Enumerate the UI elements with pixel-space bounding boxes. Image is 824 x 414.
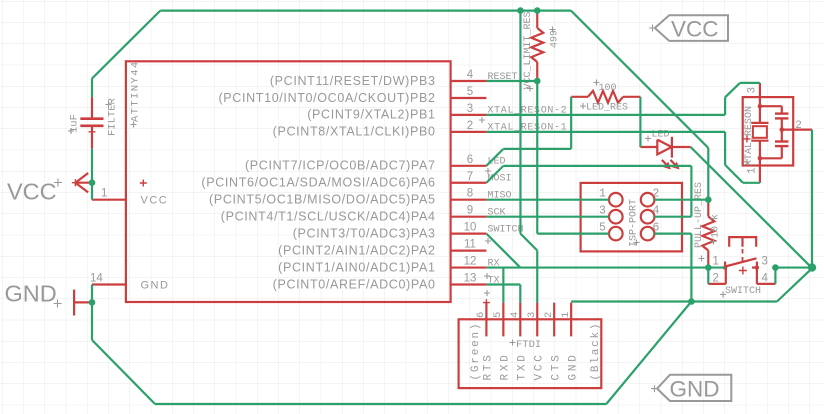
wire RX drop to FTDI RXD (502, 268, 504, 303)
IC U1 ATTINY44 body (126, 61, 451, 302)
svg-text:SWITCH: SWITCH (725, 286, 761, 297)
svg-text:VCC: VCC (671, 16, 719, 41)
svg-text:6: 6 (475, 312, 487, 318)
svg-text:10 k: 10 k (710, 214, 722, 238)
svg-text:1uF: 1uF (69, 114, 81, 133)
svg-text:1: 1 (599, 188, 606, 201)
wire XTAL_RESON-1 vertical (724, 132, 726, 165)
wire switch pin4 box edge (774, 268, 776, 284)
svg-text:2: 2 (796, 119, 802, 131)
svg-text:(PCINT1/AIN0/ADC1)PA1: (PCINT1/AIN0/ADC1)PA1 (278, 260, 435, 274)
switch pin 4 box (756, 268, 758, 284)
wire switch 3 to GND node (775, 266, 812, 268)
svg-text:(Black): (Black) (590, 322, 602, 381)
svg-text:2: 2 (543, 312, 555, 318)
wire switch pin2 box edge (707, 268, 709, 284)
svg-text:TXD: TXD (517, 352, 529, 380)
wire MOSI diagonal from pin 7 (486, 166, 503, 183)
wire XTAL_RESON-1 to pin 1 (743, 182, 760, 184)
svg-text:CTS: CTS (550, 352, 562, 380)
pin 12 lead (451, 266, 487, 268)
wire RX/SWITCH row (486, 266, 725, 268)
pin 9 lead (451, 216, 487, 218)
wire VCC cap-top vertical (91, 79, 93, 98)
svg-text:(PCINT9/XTAL2)PB1: (PCINT9/XTAL2)PB1 (307, 108, 435, 122)
pin 8 lead (451, 199, 487, 201)
svg-text:13: 13 (464, 273, 477, 285)
svg-text:(PCINT5/OC1B/MISO/DO/ADC5)PA5: (PCINT5/OC1B/MISO/DO/ADC5)PA5 (209, 193, 436, 207)
svg-text:(PCINT0/AREF/ADC0)PA0: (PCINT0/AREF/ADC0)PA0 (273, 277, 436, 291)
wire LED cathode diagonal to GND node (691, 147, 812, 268)
LED emission arrows (662, 160, 677, 167)
wire GND row under switch (571, 300, 777, 302)
junction GND symbol (89, 299, 96, 306)
svg-text:(PCINT8/XTAL1/CLKI)PB0: (PCINT8/XTAL1/CLKI)PB0 (273, 125, 436, 139)
svg-text:8: 8 (467, 188, 473, 200)
wire MOSI to ISP pad 4 (654, 216, 691, 218)
supply flag VCC (top right) (655, 15, 728, 41)
svg-text:3: 3 (526, 312, 538, 318)
wire MOSI horizontal (503, 165, 691, 167)
pin 1 VCC lead (92, 199, 126, 201)
FTDI pin 5 lead (502, 303, 504, 337)
wire SCK to ISP pad 3 (486, 216, 609, 218)
svg-text:1: 1 (747, 167, 759, 174)
svg-text:1: 1 (101, 188, 107, 200)
wire resonator pin2 down to GND node (811, 130, 813, 268)
junction VCC rail B (534, 7, 541, 14)
svg-text:(PCINT6/OC1A/SDA/MOSI/ADC6)PA6: (PCINT6/OC1A/SDA/MOSI/ADC6)PA6 (201, 176, 435, 190)
svg-text:RTS: RTS (483, 352, 495, 380)
svg-text:1: 1 (713, 256, 719, 268)
junction VCC rail A (517, 7, 524, 14)
wire TX drop to FTDI TXD (519, 285, 521, 303)
svg-text:VCC: VCC (141, 195, 169, 207)
ground symbol GND (73, 290, 75, 316)
svg-text:100: 100 (599, 83, 617, 94)
pin 3 lead (451, 114, 487, 116)
svg-text:SWITCH: SWITCH (488, 224, 524, 235)
svg-text:XTAL_RESON: XTAL_RESON (744, 106, 755, 166)
switch S1 actuator (729, 237, 756, 247)
svg-text:GND: GND (5, 281, 57, 307)
svg-text:(PCINT10/INT0/OC0A/CKOUT)PB2: (PCINT10/INT0/OC0A/CKOUT)PB2 (218, 91, 435, 105)
wire XTAL_RESON-1 horizontal (486, 131, 725, 133)
ISP pad 2 (641, 193, 655, 207)
wire VCC vertical to FTDI (519, 11, 521, 234)
connector J2 FTDI body (459, 319, 602, 388)
svg-text:VCC_LIMIT_RES: VCC_LIMIT_RES (523, 11, 534, 89)
wire resistor to LED anode (639, 97, 641, 147)
svg-text:2: 2 (713, 273, 719, 285)
switch contact 3 (756, 262, 758, 268)
svg-text:(PCINT11/RESET/DW)PB3: (PCINT11/RESET/DW)PB3 (270, 74, 436, 88)
pin 4 lead (451, 80, 487, 82)
svg-text:3: 3 (467, 103, 473, 115)
wire SWITCH diagonal from pin 10 (486, 234, 520, 268)
supply symbol VCC arrow (75, 182, 92, 184)
resonator pin 1 lead (759, 141, 761, 183)
crystal plates (751, 122, 768, 124)
wire RESET to ISP pad 5 (537, 233, 609, 235)
wire MISO to ISP pad 1 (486, 199, 609, 201)
pin 5 lead (451, 97, 487, 99)
wire LED diagonal from pin 6 (486, 149, 503, 166)
junction GND ftdi (688, 298, 695, 305)
internal caps to pin 2 (760, 105, 782, 107)
junction pull-up top (705, 196, 712, 203)
svg-text:6: 6 (467, 154, 473, 166)
wire XTAL_RESON-2 horizontal (486, 114, 725, 116)
wire VCC vertical to pull-up (707, 148, 709, 200)
wire VCC jog diagonal (520, 234, 537, 251)
svg-text:4: 4 (509, 312, 521, 318)
svg-text:(PCINT7/ICP/OC0B/ADC7)PA7: (PCINT7/ICP/OC0B/ADC7)PA7 (245, 159, 436, 173)
capacitor C1 FILTER 1uF (91, 97, 93, 118)
svg-text:12: 12 (464, 256, 477, 268)
ISP pad 1 (609, 193, 623, 207)
pin 7 lead (451, 182, 487, 184)
junction GND node (809, 264, 816, 271)
resistor R2 LED_RES 100 (571, 96, 588, 98)
wire TX from pin 13 (486, 283, 520, 285)
wire RESET vertical (536, 81, 538, 234)
ISP pad 6 (641, 227, 655, 241)
junction pull-up bottom (705, 264, 712, 271)
svg-text:VCC: VCC (533, 352, 545, 380)
wire XTAL_RESON-2 vertical (724, 97, 726, 115)
svg-text:GND: GND (141, 280, 170, 292)
wire LED horizontal (503, 148, 571, 150)
resistor R1 VCC_LIMIT_RES 499 (536, 11, 538, 28)
wire VCC drop to FTDI pin 3 (536, 251, 538, 303)
svg-text:4: 4 (653, 205, 660, 218)
ISP pad 3 (609, 210, 623, 224)
svg-text:14: 14 (90, 273, 103, 285)
wire MOSI vertical (690, 166, 692, 217)
svg-text:VCC: VCC (7, 179, 57, 205)
wire LED up to resistor (570, 97, 572, 149)
pin 11 lead (451, 250, 487, 252)
svg-text:LED_RES: LED_RES (586, 103, 628, 114)
svg-text:1: 1 (560, 312, 572, 318)
wire VCC diagonal top-left (92, 11, 160, 79)
svg-text:PULL-UP_RES: PULL-UP_RES (694, 182, 705, 248)
svg-text:RXD: RXD (500, 352, 512, 380)
resonator pin 2 lead (782, 129, 812, 131)
pin 2 lead (451, 131, 487, 133)
FTDI pin 1 lead (570, 303, 572, 337)
svg-text:5: 5 (467, 86, 473, 98)
svg-text:3: 3 (762, 256, 768, 268)
wire VCC top rail (160, 10, 571, 12)
ISP pad 5 (609, 227, 623, 241)
wire GND bottom rail (155, 403, 606, 405)
wire RESET from pin 4 (486, 80, 537, 82)
connector J1 ISP-PORT body (581, 183, 682, 252)
supply flag GND (bottom right) (657, 375, 731, 401)
junction VCC arrow (89, 179, 96, 186)
svg-text:GND: GND (567, 352, 579, 380)
wire VCC long diagonal (571, 11, 708, 148)
wire GND diagonal bottom-left (92, 340, 155, 404)
svg-text:5: 5 (492, 312, 504, 318)
wire XTAL_RESON-1 diagonal (725, 165, 743, 183)
svg-text:ISP-PORT: ISP-PORT (629, 199, 640, 247)
svg-text:3: 3 (599, 205, 606, 218)
svg-text:10: 10 (464, 222, 477, 234)
FTDI pin 2 lead (553, 303, 555, 337)
wire VCC cap-bottom to pin 1 (91, 149, 93, 200)
wire GND diagonal to rail (606, 302, 691, 405)
wire VCC ISP pad 2 to pull-up (654, 199, 708, 201)
switch contact 1 (724, 262, 726, 268)
svg-text:7: 7 (467, 171, 473, 183)
svg-text:11: 11 (464, 239, 476, 251)
svg-text:2: 2 (467, 120, 473, 132)
resistor R3 PULL-UP_RES 10k (707, 200, 709, 217)
wire XTAL_RESON-2 diagonal (725, 83, 740, 97)
FTDI pin 3 lead (536, 303, 538, 337)
svg-text:(Green): (Green) (470, 322, 482, 381)
wire XTAL_RESON-2 to pin 3 (740, 82, 760, 84)
junction RESET (534, 78, 541, 85)
pin 10 lead (451, 233, 487, 235)
svg-text:9: 9 (467, 205, 473, 217)
svg-text:499: 499 (550, 30, 561, 48)
wire GND from ISP pad 6 (654, 233, 691, 235)
resonator X1 XTAL_RESON body (743, 97, 794, 165)
junction switch pin4 (772, 264, 779, 271)
switch pin 2 box (708, 283, 726, 285)
svg-text:3: 3 (747, 87, 759, 94)
svg-text:4: 4 (762, 273, 769, 285)
FTDI pin 6 lead (485, 303, 487, 337)
wire GND diagonal to node (777, 268, 812, 301)
svg-text:GND: GND (670, 377, 720, 402)
svg-text:(PCINT4/T1/SCL/USCK/ADC4)PA4: (PCINT4/T1/SCL/USCK/ADC4)PA4 (221, 210, 436, 224)
FTDI pin 4 lead (519, 303, 521, 337)
pin 13 lead (451, 283, 487, 285)
wire GND left vertical (91, 285, 93, 341)
wire GND vertical (690, 234, 692, 302)
resonator pin 3 lead (759, 83, 761, 123)
ISP pad 4 (641, 210, 655, 224)
svg-text:2: 2 (653, 188, 660, 201)
svg-text:(PCINT3/T0/ADC3)PA3: (PCINT3/T0/ADC3)PA3 (293, 226, 436, 240)
pin 14 GND lead (92, 283, 126, 285)
junction GND node big (808, 263, 816, 271)
svg-text:4: 4 (467, 69, 474, 81)
svg-text:(PCINT2/AIN1/ADC2)PA2: (PCINT2/AIN1/ADC2)PA2 (278, 243, 435, 257)
pin 6 lead (451, 165, 487, 167)
switch arm (725, 258, 756, 266)
svg-text:FTDI: FTDI (516, 339, 541, 351)
svg-text:ATTINY44: ATTINY44 (130, 60, 142, 122)
LED D1 (640, 146, 657, 148)
